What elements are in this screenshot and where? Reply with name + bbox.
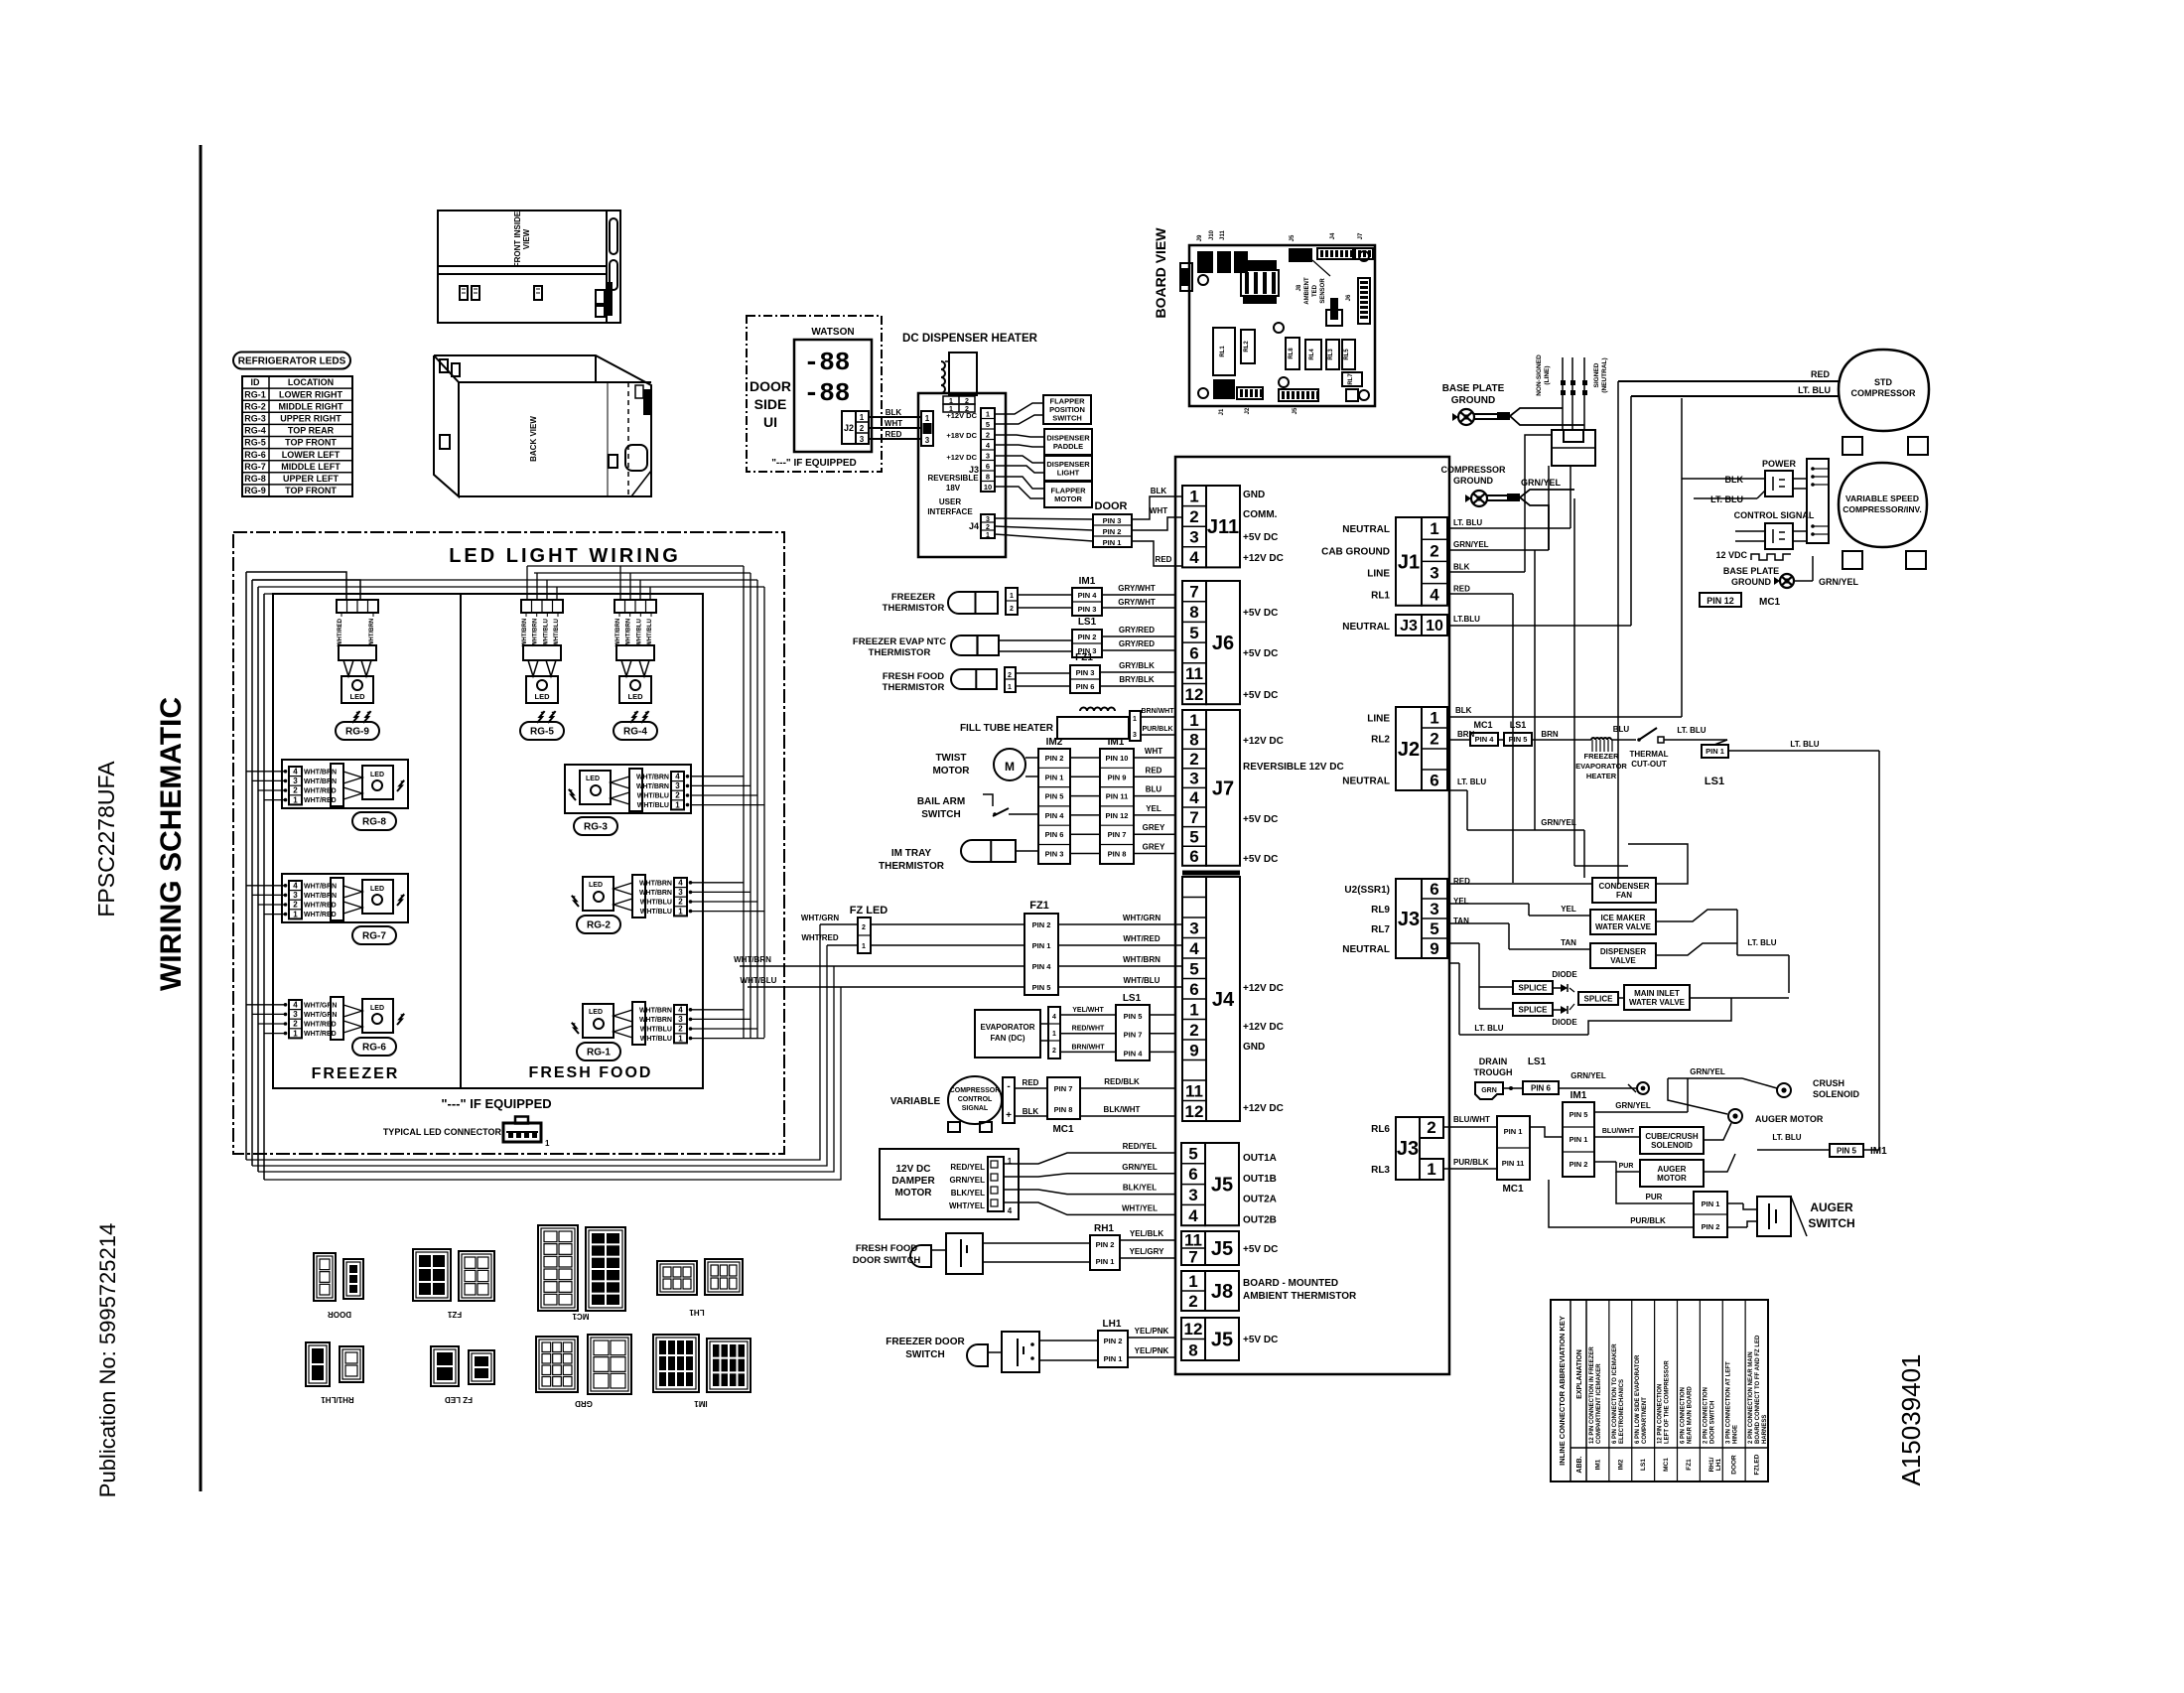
svg-text:3: 3 (293, 776, 298, 785)
svg-text:10: 10 (984, 483, 992, 492)
svg-text:EVAPORATOR: EVAPORATOR (1575, 762, 1627, 771)
svg-text:2 PIN CONNECTION NEAR MAIN: 2 PIN CONNECTION NEAR MAIN (1748, 1351, 1754, 1444)
svg-text:TOP REAR: TOP REAR (288, 426, 335, 436)
svg-text:4: 4 (1052, 1014, 1056, 1021)
svg-text:PIN 4: PIN 4 (1032, 962, 1052, 971)
svg-text:4: 4 (1189, 548, 1199, 567)
svg-text:LED LIGHT WIRING: LED LIGHT WIRING (449, 545, 681, 567)
svg-text:WHT/BRN: WHT/BRN (639, 1007, 672, 1014)
svg-text:+12V DC: +12V DC (1243, 1103, 1284, 1114)
svg-text:6: 6 (986, 462, 990, 471)
svg-text:GRD: GRD (575, 1399, 593, 1408)
svg-text:DOOR: DOOR (750, 378, 791, 394)
svg-text:GRY/BLK: GRY/BLK (1119, 661, 1155, 670)
svg-text:FREEZER EVAP NTC: FREEZER EVAP NTC (853, 636, 946, 647)
svg-text:MC1: MC1 (1663, 1458, 1670, 1472)
svg-text:2: 2 (986, 431, 990, 440)
svg-text:J6: J6 (1212, 633, 1234, 654)
svg-text:THERMAL: THERMAL (1629, 750, 1668, 759)
svg-text:LOWER LEFT: LOWER LEFT (282, 450, 341, 460)
svg-text:ABB.: ABB. (1576, 1456, 1583, 1473)
svg-text:1: 1 (862, 943, 866, 950)
svg-text:BLK: BLK (886, 408, 902, 417)
svg-text:RL6: RL6 (1371, 1124, 1390, 1135)
svg-text:LT. BLU: LT. BLU (1790, 740, 1819, 749)
svg-text:RL4: RL4 (1309, 349, 1315, 360)
svg-text:1: 1 (293, 910, 298, 918)
svg-text:J7: J7 (1358, 232, 1364, 239)
svg-text:2: 2 (1189, 507, 1198, 526)
svg-text:COMPRESSOR: COMPRESSOR (1440, 465, 1506, 475)
svg-text:BOARD - MOUNTED: BOARD - MOUNTED (1243, 1278, 1338, 1289)
svg-text:SPLICE: SPLICE (1584, 994, 1614, 1003)
svg-text:LT. BLU: LT. BLU (1457, 777, 1486, 786)
svg-text:AUGER MOTOR: AUGER MOTOR (1755, 1114, 1824, 1124)
svg-text:7: 7 (1189, 582, 1198, 601)
svg-text:2: 2 (1189, 1021, 1198, 1040)
svg-text:UPPER RIGHT: UPPER RIGHT (280, 414, 341, 424)
svg-text:PIN 1: PIN 1 (1504, 1127, 1523, 1136)
svg-text:HINGE: HINGE (1732, 1425, 1738, 1444)
svg-text:BRN: BRN (1457, 730, 1475, 739)
svg-text:2: 2 (1189, 750, 1198, 769)
svg-text:J8: J8 (1211, 1281, 1233, 1303)
svg-text:ID: ID (251, 377, 261, 387)
svg-text:BLU: BLU (1146, 785, 1162, 794)
svg-text:2: 2 (1052, 1048, 1056, 1055)
svg-text:PADDLE: PADDLE (1053, 442, 1083, 451)
svg-text:BOARD VIEW: BOARD VIEW (1153, 227, 1168, 319)
svg-text:COMPARTMENT: COMPARTMENT (1642, 1397, 1648, 1444)
svg-text:+5V DC: +5V DC (1243, 814, 1278, 825)
svg-text:3: 3 (986, 452, 990, 461)
svg-text:PIN 1: PIN 1 (1706, 747, 1724, 756)
svg-text:NEUTRAL: NEUTRAL (1342, 944, 1390, 955)
svg-text:CRUSH: CRUSH (1813, 1078, 1844, 1088)
svg-text:LT.BLU: LT.BLU (1453, 615, 1480, 624)
svg-text:DIODE: DIODE (1552, 970, 1577, 979)
svg-text:+5V DC: +5V DC (1243, 854, 1278, 865)
svg-text:7: 7 (1189, 808, 1198, 827)
svg-text:12: 12 (1184, 1320, 1203, 1339)
svg-text:IM1: IM1 (1570, 1090, 1587, 1101)
svg-text:FREEZER DOOR: FREEZER DOOR (886, 1337, 965, 1347)
svg-text:IM1: IM1 (1079, 576, 1096, 587)
svg-text:BLK: BLK (1151, 487, 1167, 495)
svg-text:FRESH FOOD: FRESH FOOD (529, 1064, 653, 1081)
svg-text:+: + (1006, 1110, 1012, 1121)
svg-text:BLK: BLK (1023, 1107, 1039, 1116)
svg-text:J2: J2 (1398, 739, 1420, 761)
svg-text:IM1: IM1 (1594, 1459, 1601, 1470)
svg-text:3: 3 (1188, 1186, 1197, 1204)
svg-text:COMPARTMENT ICEMAKER: COMPARTMENT ICEMAKER (1596, 1363, 1602, 1444)
svg-text:BRN: BRN (1541, 730, 1559, 739)
svg-text:MOTOR: MOTOR (932, 766, 970, 776)
svg-text:3: 3 (675, 781, 680, 790)
svg-text:NEUTRAL: NEUTRAL (1342, 524, 1390, 535)
svg-text:MAIN INLET: MAIN INLET (1634, 989, 1680, 998)
svg-text:ICE MAKER: ICE MAKER (1601, 914, 1646, 922)
svg-text:RED: RED (1023, 1078, 1039, 1087)
svg-text:4: 4 (675, 773, 680, 781)
svg-text:1: 1 (293, 795, 298, 804)
svg-text:2: 2 (293, 901, 298, 910)
svg-text:RG-7: RG-7 (244, 462, 266, 472)
svg-text:UI: UI (763, 414, 777, 430)
svg-text:COMM.: COMM. (1243, 509, 1278, 520)
svg-text:-: - (1007, 1081, 1010, 1092)
svg-text:GRN/YEL: GRN/YEL (1453, 540, 1489, 549)
svg-text:RED: RED (886, 430, 902, 439)
svg-text:DOOR SWITCH: DOOR SWITCH (1709, 1401, 1715, 1444)
svg-text:AMBIENT THERMISTOR: AMBIENT THERMISTOR (1243, 1291, 1357, 1302)
svg-text:SOLENOID: SOLENOID (1813, 1089, 1860, 1099)
svg-text:NEUTRAL: NEUTRAL (1342, 622, 1390, 633)
svg-text:DAMPER: DAMPER (891, 1176, 935, 1187)
svg-text:CONDENSER: CONDENSER (1598, 882, 1649, 891)
svg-text:12 PIN CONNECTION: 12 PIN CONNECTION (1658, 1384, 1664, 1444)
svg-text:SIGNAL: SIGNAL (962, 1105, 989, 1112)
svg-text:WATER VALVE: WATER VALVE (1629, 998, 1686, 1007)
svg-text:OUT1B: OUT1B (1243, 1174, 1277, 1185)
svg-text:+12V DC: +12V DC (1243, 1022, 1284, 1033)
svg-text:WHT/BRN: WHT/BRN (1123, 955, 1160, 964)
svg-text:PIN 5: PIN 5 (1045, 792, 1064, 801)
svg-text:HARNESS: HARNESS (1762, 1415, 1768, 1444)
svg-text:PIN 5: PIN 5 (1032, 983, 1051, 992)
svg-text:1: 1 (1008, 684, 1012, 691)
svg-text:6: 6 (1189, 847, 1198, 866)
svg-text:NON-SIGNED: NON-SIGNED (1536, 354, 1543, 396)
svg-text:RL3: RL3 (1371, 1165, 1390, 1176)
svg-text:J4: J4 (969, 521, 979, 531)
svg-text:WHT/BLU: WHT/BLU (741, 976, 777, 985)
svg-text:CUBE/CRUSH: CUBE/CRUSH (1645, 1132, 1699, 1141)
svg-text:USER: USER (939, 497, 961, 506)
svg-text:RG-2: RG-2 (587, 920, 611, 931)
svg-text:BLU/WHT: BLU/WHT (1602, 1128, 1635, 1135)
svg-text:WHT/RED: WHT/RED (801, 933, 839, 942)
svg-text:PIN 2: PIN 2 (1702, 1222, 1720, 1231)
svg-text:4: 4 (1430, 586, 1439, 605)
svg-text:3: 3 (1133, 732, 1137, 739)
svg-text:PIN 12: PIN 12 (1706, 596, 1734, 606)
svg-text:3: 3 (860, 435, 865, 444)
svg-text:1: 1 (1430, 519, 1438, 538)
svg-text:ELECTROMECHANICS: ELECTROMECHANICS (1619, 1379, 1625, 1444)
svg-text:WHT/BRN: WHT/BRN (304, 769, 337, 776)
svg-text:RG-3: RG-3 (584, 822, 608, 833)
svg-text:BAIL ARM: BAIL ARM (917, 796, 965, 807)
svg-text:GREY: GREY (1143, 843, 1165, 852)
svg-text:GRY/RED: GRY/RED (1119, 626, 1155, 635)
svg-text:VIEW: VIEW (522, 228, 531, 249)
svg-text:4: 4 (678, 879, 683, 888)
svg-text:FRESH FOOD: FRESH FOOD (856, 1243, 917, 1254)
svg-text:1: 1 (1189, 487, 1198, 505)
svg-text:4: 4 (678, 1006, 683, 1015)
svg-text:BLK/YEL: BLK/YEL (951, 1189, 985, 1198)
svg-text:3: 3 (678, 1015, 683, 1024)
svg-text:RG-1: RG-1 (587, 1048, 611, 1058)
svg-text:VALVE: VALVE (1610, 956, 1636, 965)
svg-text:WHT/BRN: WHT/BRN (304, 883, 337, 890)
svg-text:LS1: LS1 (1640, 1459, 1647, 1471)
svg-text:+12V DC: +12V DC (1243, 553, 1284, 564)
svg-text:PIN 4: PIN 4 (1078, 591, 1098, 600)
svg-text:SOLENOID: SOLENOID (1651, 1141, 1693, 1150)
svg-text:WHT/BRN: WHT/BRN (734, 955, 771, 964)
svg-text:LT. BLU: LT. BLU (1677, 726, 1706, 735)
svg-text:PIN 7: PIN 7 (1054, 1084, 1073, 1093)
svg-text:PIN 2: PIN 2 (1096, 1240, 1115, 1249)
svg-text:8: 8 (986, 473, 990, 482)
svg-text:PIN 2: PIN 2 (1570, 1160, 1588, 1169)
svg-text:WHT/BRN: WHT/BRN (626, 619, 632, 646)
svg-text:VARIABLE: VARIABLE (890, 1096, 941, 1107)
svg-text:TOP FRONT: TOP FRONT (285, 486, 337, 495)
svg-text:FZ1: FZ1 (447, 1310, 462, 1319)
svg-text:RL7: RL7 (1348, 373, 1354, 385)
svg-text:3: 3 (1430, 900, 1438, 918)
svg-text:FILL TUBE HEATER: FILL TUBE HEATER (960, 723, 1054, 734)
svg-text:PIN 1: PIN 1 (1104, 1354, 1123, 1363)
svg-text:YEL: YEL (1146, 804, 1161, 813)
svg-text:IM1: IM1 (1870, 1146, 1887, 1157)
svg-text:AUGER: AUGER (1658, 1165, 1687, 1174)
svg-text:DOOR: DOOR (1731, 1455, 1738, 1475)
svg-text:J7: J7 (1212, 777, 1234, 799)
svg-text:4: 4 (293, 1001, 298, 1010)
svg-text:TAN: TAN (1561, 938, 1576, 947)
svg-text:YEL/GRY: YEL/GRY (1130, 1247, 1164, 1256)
svg-text:IM2: IM2 (1617, 1459, 1624, 1470)
svg-text:BRY/BLK: BRY/BLK (1119, 675, 1154, 684)
svg-text:J4: J4 (1212, 989, 1235, 1011)
svg-text:3: 3 (678, 888, 683, 897)
svg-text:CAB GROUND: CAB GROUND (1321, 546, 1390, 557)
svg-text:STD: STD (1874, 377, 1893, 387)
svg-text:PIN 5: PIN 5 (1509, 735, 1528, 744)
svg-text:U2(SSR1): U2(SSR1) (1344, 885, 1390, 896)
svg-text:WHT/BRN: WHT/BRN (369, 619, 375, 646)
svg-text:RED: RED (1811, 369, 1831, 379)
svg-text:WHT/BLU: WHT/BLU (637, 802, 669, 809)
svg-text:LT. BLU: LT. BLU (1710, 494, 1743, 504)
svg-text:RL8: RL8 (1289, 348, 1295, 359)
svg-text:MIDDLE RIGHT: MIDDLE RIGHT (279, 401, 343, 411)
svg-text:AMBIENT: AMBIENT (1304, 277, 1310, 305)
svg-text:GRY/WHT: GRY/WHT (1118, 598, 1156, 607)
svg-text:LS1: LS1 (1123, 993, 1142, 1004)
svg-text:RH1/LH1: RH1/LH1 (321, 1395, 354, 1404)
svg-text:WHT/BRN: WHT/BRN (639, 890, 672, 897)
svg-text:RG-4: RG-4 (244, 426, 266, 436)
svg-text:4: 4 (1188, 1206, 1198, 1225)
svg-text:SPLICE: SPLICE (1519, 1005, 1549, 1014)
svg-text:SIDE: SIDE (754, 396, 787, 412)
svg-text:3: 3 (293, 891, 298, 900)
svg-text:J5: J5 (1211, 1238, 1233, 1260)
svg-text:IM1: IM1 (1108, 737, 1125, 748)
svg-text:TWIST: TWIST (935, 753, 966, 764)
svg-text:1: 1 (1052, 1031, 1056, 1038)
svg-text:2 PIN CONNECTION: 2 PIN CONNECTION (1703, 1387, 1708, 1444)
svg-text:WHT/BLU: WHT/BLU (543, 619, 549, 646)
svg-text:WHT/BRN: WHT/BRN (639, 880, 672, 887)
svg-text:BOARD CONNECT TO FF AND FZ LED: BOARD CONNECT TO FF AND FZ LED (1755, 1335, 1761, 1444)
svg-text:PIN 1: PIN 1 (1103, 538, 1122, 547)
svg-text:IM1: IM1 (694, 1399, 708, 1408)
svg-text:12 PIN CONNECTION IN FREEZER: 12 PIN CONNECTION IN FREEZER (1589, 1346, 1595, 1444)
svg-text:FRONT INSIDE: FRONT INSIDE (513, 211, 522, 267)
svg-text:BLU: BLU (1613, 725, 1630, 734)
svg-text:J2: J2 (844, 423, 854, 433)
svg-text:WHT/BRN: WHT/BRN (636, 774, 669, 780)
svg-text:PUR: PUR (1619, 1163, 1634, 1170)
svg-text:2: 2 (1008, 672, 1012, 679)
svg-text:WHT/BLU: WHT/BLU (554, 619, 560, 646)
svg-text:J10: J10 (1209, 229, 1215, 240)
svg-text:GROUND: GROUND (1453, 476, 1493, 486)
svg-text:WHT/BRN: WHT/BRN (615, 619, 621, 646)
svg-text:9: 9 (1189, 1041, 1198, 1059)
svg-text:GROUND: GROUND (1451, 395, 1495, 406)
svg-text:NEUTRAL: NEUTRAL (1342, 776, 1390, 787)
svg-text:WHT/RED: WHT/RED (338, 618, 343, 646)
svg-text:CONTROL SIGNAL: CONTROL SIGNAL (1734, 510, 1815, 520)
svg-text:1: 1 (678, 907, 683, 916)
svg-text:RG-9: RG-9 (244, 486, 266, 495)
svg-text:12V DC: 12V DC (895, 1164, 930, 1175)
svg-text:3: 3 (1430, 564, 1438, 583)
svg-text:PIN 3: PIN 3 (1076, 668, 1095, 677)
svg-text:GRN/YEL: GRN/YEL (1690, 1067, 1725, 1076)
svg-text:(NEUTRAL): (NEUTRAL) (1601, 357, 1608, 392)
svg-text:RG-4: RG-4 (623, 727, 647, 738)
svg-text:2: 2 (678, 1025, 683, 1034)
svg-text:DC DISPENSER HEATER: DC DISPENSER HEATER (902, 333, 1038, 345)
svg-text:WHT/BLU: WHT/BLU (1124, 976, 1160, 985)
svg-text:2: 2 (1010, 606, 1014, 613)
svg-text:FREEZER: FREEZER (312, 1065, 400, 1082)
svg-text:LT. BLU: LT. BLU (1798, 385, 1831, 395)
svg-text:RL2: RL2 (1244, 341, 1250, 353)
svg-text:WHT: WHT (1150, 506, 1167, 515)
svg-text:SWITCH: SWITCH (905, 1349, 944, 1360)
svg-text:A15039401: A15039401 (1896, 1353, 1926, 1485)
svg-text:RH1: RH1 (1094, 1223, 1114, 1234)
svg-text:PIN 7: PIN 7 (1124, 1031, 1143, 1040)
svg-text:BLK: BLK (1725, 475, 1744, 485)
svg-text:2: 2 (862, 924, 866, 931)
svg-text:PIN 5: PIN 5 (1124, 1012, 1143, 1021)
svg-text:RED/BLK: RED/BLK (1104, 1077, 1140, 1086)
svg-text:RG-1: RG-1 (244, 389, 266, 399)
svg-text:RL3: RL3 (1328, 349, 1334, 360)
svg-text:PUR/BLK: PUR/BLK (1142, 726, 1172, 733)
svg-text:4: 4 (1008, 1206, 1013, 1215)
svg-text:MOTOR: MOTOR (894, 1188, 932, 1199)
svg-text:2: 2 (675, 791, 680, 800)
svg-text:MC1: MC1 (1052, 1124, 1074, 1135)
svg-text:RL1: RL1 (1371, 591, 1390, 602)
svg-text:LED: LED (350, 692, 366, 701)
svg-text:2: 2 (860, 424, 865, 433)
svg-text:BLK/WHT: BLK/WHT (1104, 1105, 1141, 1114)
svg-text:+12V DC: +12V DC (946, 453, 977, 462)
svg-text:WHT/BRN: WHT/BRN (304, 893, 337, 900)
svg-text:J5: J5 (1290, 234, 1296, 241)
svg-text:GRN/YEL: GRN/YEL (1521, 478, 1562, 488)
svg-text:+5V DC: +5V DC (1243, 608, 1278, 619)
svg-text:OUT1A: OUT1A (1243, 1153, 1277, 1164)
svg-text:LH1: LH1 (689, 1308, 705, 1317)
svg-text:PIN 7: PIN 7 (1108, 830, 1127, 839)
svg-text:1: 1 (545, 1139, 550, 1148)
svg-text:WHT/RED: WHT/RED (1123, 934, 1160, 943)
svg-text:YEL: YEL (1561, 905, 1576, 914)
svg-text:4: 4 (293, 768, 298, 776)
svg-text:2: 2 (1430, 730, 1438, 749)
svg-text:PIN 10: PIN 10 (1106, 754, 1129, 763)
svg-text:"---" IF EQUIPPED: "---" IF EQUIPPED (771, 458, 857, 469)
svg-text:J3: J3 (1400, 618, 1418, 635)
svg-text:PIN 9: PIN 9 (1108, 773, 1127, 781)
svg-text:WHT/BLU: WHT/BLU (636, 619, 642, 646)
svg-text:WHT/GRN: WHT/GRN (304, 1002, 337, 1009)
svg-text:2: 2 (1188, 1292, 1197, 1311)
svg-text:PIN 5: PIN 5 (1570, 1110, 1588, 1119)
svg-text:DOOR: DOOR (1095, 500, 1128, 512)
svg-text:-88: -88 (804, 348, 851, 377)
svg-text:PIN 4: PIN 4 (1124, 1049, 1144, 1058)
svg-text:LOCATION: LOCATION (288, 377, 334, 387)
svg-text:RED/WHT: RED/WHT (1072, 1026, 1105, 1033)
svg-text:Publication No: 5995725214: Publication No: 5995725214 (95, 1223, 120, 1497)
svg-text:FAN (DC): FAN (DC) (990, 1034, 1024, 1043)
svg-text:1: 1 (1133, 716, 1137, 723)
svg-text:RG-8: RG-8 (244, 474, 266, 484)
svg-text:COMPRESSOR: COMPRESSOR (1850, 388, 1916, 398)
svg-text:FAN: FAN (1616, 891, 1632, 900)
svg-text:6 PIN CONNECTION TO ICEMAKER: 6 PIN CONNECTION TO ICEMAKER (1612, 1343, 1618, 1444)
svg-text:GRN/YEL: GRN/YEL (1541, 818, 1576, 827)
svg-text:1: 1 (678, 1034, 683, 1043)
svg-text:RED: RED (1156, 555, 1172, 564)
svg-text:WHT/BRN: WHT/BRN (522, 619, 528, 646)
svg-text:MOTOR: MOTOR (1657, 1174, 1687, 1183)
svg-text:2: 2 (293, 786, 298, 795)
svg-text:LED: LED (370, 1005, 384, 1012)
svg-text:2: 2 (965, 398, 969, 405)
svg-text:GRN/YEL: GRN/YEL (1122, 1163, 1158, 1172)
svg-text:LT. BLU: LT. BLU (1474, 1024, 1503, 1033)
svg-text:J3: J3 (1397, 1138, 1419, 1160)
svg-text:DISPENSER: DISPENSER (1600, 947, 1646, 956)
svg-text:LED: LED (589, 882, 603, 889)
svg-text:BASE PLATE: BASE PLATE (1723, 566, 1779, 576)
svg-text:LH1: LH1 (1715, 1458, 1722, 1471)
svg-text:TOP FRONT: TOP FRONT (285, 438, 337, 448)
svg-text:RG-9: RG-9 (345, 727, 369, 738)
svg-text:WHT/YEL: WHT/YEL (949, 1201, 985, 1210)
svg-text:GRN: GRN (1481, 1087, 1497, 1094)
svg-text:GRN/YEL: GRN/YEL (1615, 1101, 1651, 1110)
svg-text:OUT2A: OUT2A (1243, 1195, 1277, 1205)
svg-text:RED: RED (1453, 585, 1470, 594)
